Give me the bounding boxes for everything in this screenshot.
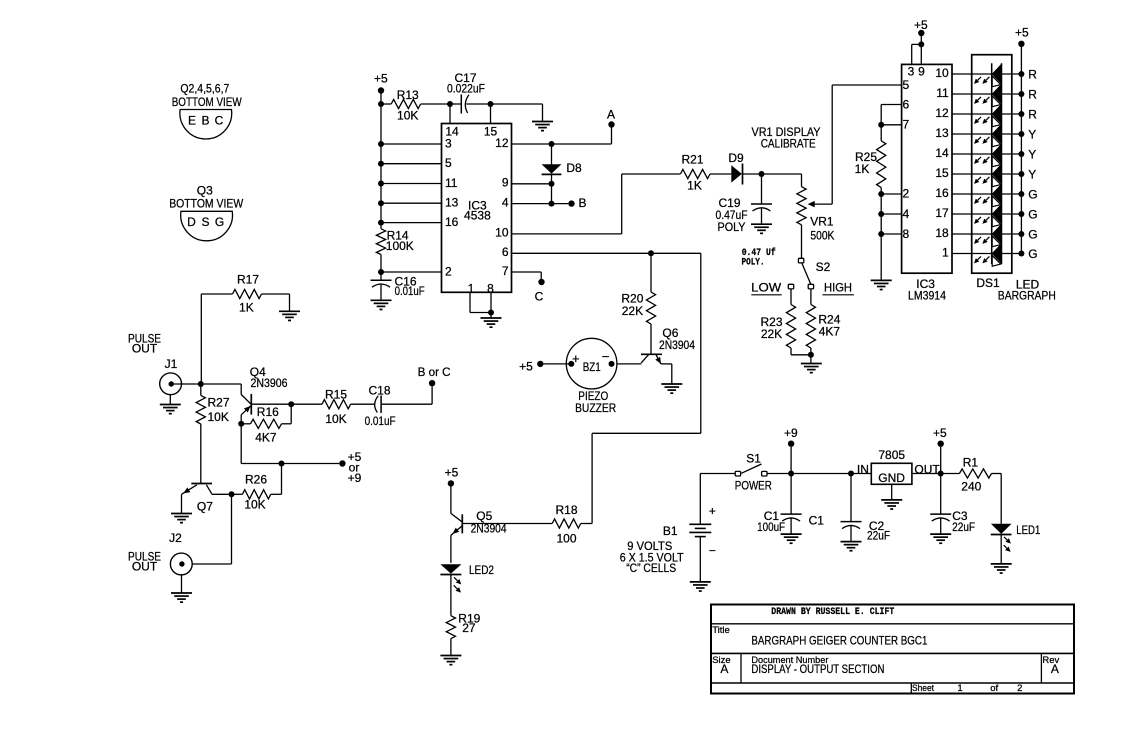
svg-text:LED2: LED2	[469, 563, 494, 577]
svg-text:4: 4	[902, 207, 909, 221]
svg-text:C18: C18	[368, 383, 390, 397]
svg-text:14: 14	[935, 146, 949, 160]
svg-text:B or C: B or C	[418, 365, 451, 379]
svg-text:B1: B1	[663, 524, 678, 538]
svg-text:POLY.: POLY.	[742, 258, 765, 269]
svg-text:Q7: Q7	[197, 500, 213, 514]
svg-text:+5: +5	[519, 360, 533, 374]
svg-text:R: R	[1028, 67, 1037, 81]
svg-text:5: 5	[445, 156, 452, 170]
svg-text:LOW: LOW	[751, 281, 782, 295]
svg-text:C1: C1	[809, 513, 825, 527]
svg-text:J1: J1	[165, 357, 178, 371]
svg-text:0.01uF: 0.01uF	[365, 414, 396, 428]
svg-text:A: A	[720, 662, 728, 676]
svg-text:4K7: 4K7	[819, 324, 841, 338]
svg-text:G: G	[1028, 227, 1037, 241]
svg-text:BOTTOM VIEW: BOTTOM VIEW	[172, 95, 243, 109]
svg-text:7: 7	[902, 118, 909, 132]
svg-text:B: B	[579, 196, 587, 210]
svg-text:3: 3	[445, 136, 452, 150]
svg-text:R16: R16	[257, 405, 279, 419]
svg-text:C: C	[535, 290, 544, 304]
svg-text:2N3904: 2N3904	[471, 522, 507, 536]
svg-text:13: 13	[445, 196, 459, 210]
svg-text:4538: 4538	[464, 208, 491, 222]
svg-text:12: 12	[495, 136, 509, 150]
svg-text:240: 240	[961, 480, 981, 494]
svg-text:+5: +5	[445, 466, 459, 480]
svg-text:9: 9	[918, 64, 925, 78]
svg-text:G: G	[1028, 187, 1037, 201]
svg-text:“C” CELLS: “C” CELLS	[626, 561, 676, 575]
svg-text:Title: Title	[712, 625, 730, 636]
svg-text:10: 10	[495, 226, 509, 240]
svg-text:4K7: 4K7	[255, 430, 277, 444]
svg-text:7: 7	[502, 264, 509, 278]
svg-text:2: 2	[445, 264, 452, 278]
svg-text:OUT: OUT	[914, 463, 940, 477]
svg-text:8: 8	[902, 227, 909, 241]
svg-text:R27: R27	[208, 396, 230, 410]
svg-text:2N3906: 2N3906	[251, 376, 288, 390]
svg-text:B: B	[201, 114, 209, 128]
svg-text:4: 4	[502, 195, 509, 209]
svg-text:1: 1	[468, 282, 475, 296]
svg-text:22K: 22K	[761, 327, 782, 341]
svg-text:100: 100	[556, 532, 576, 546]
svg-text:0.022uF: 0.022uF	[447, 81, 485, 95]
svg-text:IN: IN	[857, 463, 869, 477]
svg-text:15: 15	[935, 166, 949, 180]
svg-text:BZ1: BZ1	[583, 360, 601, 374]
svg-text:S1: S1	[746, 452, 761, 466]
svg-text:C: C	[215, 114, 224, 128]
svg-text:13: 13	[935, 126, 949, 140]
svg-text:GND: GND	[878, 471, 905, 485]
svg-text:S: S	[201, 215, 209, 229]
svg-text:+9: +9	[348, 471, 362, 485]
svg-text:R: R	[1028, 107, 1037, 121]
svg-text:LM3914: LM3914	[908, 289, 946, 303]
svg-text:CALIBRATE: CALIBRATE	[761, 136, 816, 150]
svg-text:10: 10	[935, 66, 949, 80]
svg-text:BOTTOM VIEW: BOTTOM VIEW	[169, 197, 244, 211]
svg-text:Y: Y	[1028, 167, 1036, 181]
svg-text:8: 8	[487, 282, 494, 296]
svg-text:16: 16	[445, 215, 459, 229]
svg-text:R13: R13	[397, 88, 419, 102]
svg-text:17: 17	[935, 206, 949, 220]
svg-text:of: of	[990, 683, 998, 694]
svg-text:10K: 10K	[397, 108, 418, 122]
svg-text:1: 1	[957, 683, 962, 694]
svg-text:R17: R17	[237, 273, 259, 287]
svg-text:22K: 22K	[622, 304, 643, 318]
svg-text:+5: +5	[374, 71, 388, 85]
svg-text:D: D	[187, 215, 196, 229]
svg-text:2: 2	[902, 186, 909, 200]
svg-text:R15: R15	[325, 388, 347, 402]
svg-text:G: G	[1028, 247, 1037, 261]
svg-text:POWER: POWER	[735, 479, 772, 493]
svg-text:+: +	[709, 504, 716, 518]
svg-text:10K: 10K	[325, 412, 346, 426]
svg-text:A: A	[607, 107, 615, 121]
svg-text:R1: R1	[963, 455, 979, 469]
svg-text:6: 6	[502, 245, 509, 259]
svg-text:Q3: Q3	[197, 183, 213, 197]
svg-text:−: −	[709, 544, 716, 558]
svg-text:+: +	[572, 351, 580, 366]
svg-text:10K: 10K	[208, 410, 229, 424]
svg-text:A: A	[1051, 662, 1059, 676]
svg-text:22uF: 22uF	[867, 529, 890, 543]
svg-text:Y: Y	[1028, 127, 1036, 141]
svg-text:R: R	[1028, 87, 1037, 101]
svg-text:Sheet: Sheet	[912, 683, 934, 694]
svg-text:12: 12	[935, 106, 949, 120]
svg-text:0.01uF: 0.01uF	[395, 284, 425, 298]
svg-text:18: 18	[935, 226, 949, 240]
svg-text:9: 9	[502, 176, 509, 190]
svg-text:+5: +5	[1015, 26, 1029, 40]
svg-text:DS1: DS1	[976, 276, 1000, 290]
svg-text:2N3904: 2N3904	[659, 338, 695, 352]
svg-text:+5: +5	[933, 426, 947, 440]
svg-text:16: 16	[935, 186, 949, 200]
svg-text:500K: 500K	[810, 229, 834, 243]
svg-text:D9: D9	[728, 151, 744, 165]
svg-text:LED1: LED1	[1016, 523, 1040, 537]
svg-text:5: 5	[902, 78, 909, 92]
svg-text:2: 2	[1017, 683, 1022, 694]
svg-text:BUZZER: BUZZER	[575, 401, 616, 415]
svg-text:1K: 1K	[687, 178, 702, 192]
svg-text:6: 6	[902, 97, 909, 111]
svg-text:HIGH: HIGH	[824, 281, 852, 295]
svg-text:DRAWN BY RUSSELL E. CLIFT: DRAWN BY RUSSELL E. CLIFT	[771, 607, 894, 618]
svg-text:+5: +5	[914, 18, 928, 32]
svg-text:−: −	[602, 349, 610, 364]
svg-text:Q2,4,5,6,7: Q2,4,5,6,7	[180, 82, 229, 96]
svg-text:11: 11	[936, 86, 949, 100]
svg-text:D8: D8	[566, 161, 582, 175]
svg-text:100uF: 100uF	[757, 520, 785, 534]
svg-text:R26: R26	[245, 473, 267, 487]
svg-text:E: E	[188, 114, 196, 128]
svg-text:11: 11	[445, 176, 458, 190]
svg-text:POLY: POLY	[718, 220, 746, 234]
svg-text:OUT: OUT	[132, 342, 158, 356]
svg-text:100K: 100K	[386, 239, 414, 253]
svg-text:BARGRAPH GEIGER COUNTER BGC1: BARGRAPH GEIGER COUNTER BGC1	[751, 633, 927, 647]
svg-text:22uF: 22uF	[952, 520, 975, 534]
svg-text:Y: Y	[1028, 147, 1036, 161]
svg-text:1: 1	[942, 245, 949, 259]
svg-text:OUT: OUT	[132, 560, 158, 574]
svg-text:R21: R21	[681, 152, 703, 166]
svg-text:J2: J2	[169, 531, 182, 545]
svg-text:G: G	[215, 215, 224, 229]
svg-text:VR1: VR1	[810, 215, 834, 229]
svg-text:+9: +9	[784, 426, 798, 440]
svg-text:10K: 10K	[244, 498, 265, 512]
svg-text:S2: S2	[816, 260, 831, 274]
svg-text:G: G	[1028, 207, 1037, 221]
svg-text:7805: 7805	[878, 448, 905, 462]
svg-text:3: 3	[908, 64, 915, 78]
svg-text:BARGRAPH: BARGRAPH	[998, 288, 1056, 302]
svg-text:1K: 1K	[855, 162, 870, 176]
svg-text:27: 27	[462, 621, 476, 635]
svg-text:R18: R18	[555, 503, 577, 517]
svg-text:DISPLAY - OUTPUT SECTION: DISPLAY - OUTPUT SECTION	[751, 662, 884, 676]
svg-text:1K: 1K	[239, 301, 254, 315]
